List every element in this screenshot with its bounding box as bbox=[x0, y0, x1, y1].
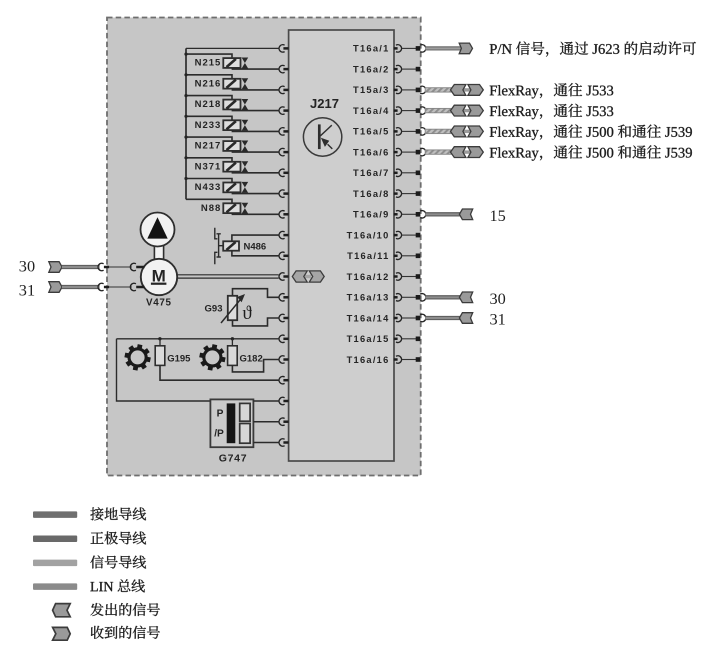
svg-text:M: M bbox=[152, 266, 166, 285]
svg-text:V475: V475 bbox=[146, 298, 172, 309]
svg-text:T15a/3: T15a/3 bbox=[353, 85, 389, 95]
svg-text:31: 31 bbox=[19, 280, 35, 299]
svg-text:N371: N371 bbox=[195, 161, 222, 172]
svg-text:T16a/6: T16a/6 bbox=[353, 147, 389, 157]
svg-text:T16a/14: T16a/14 bbox=[347, 313, 390, 323]
svg-text:ϑ: ϑ bbox=[242, 303, 252, 324]
svg-text:G195: G195 bbox=[167, 353, 191, 364]
svg-text:N215: N215 bbox=[195, 58, 222, 69]
svg-text:N216: N216 bbox=[195, 78, 222, 89]
svg-text:T16a/2: T16a/2 bbox=[353, 64, 389, 74]
svg-text:T16a/4: T16a/4 bbox=[353, 106, 389, 116]
svg-text:P: P bbox=[217, 409, 224, 420]
svg-text:N218: N218 bbox=[195, 99, 222, 110]
svg-text:N233: N233 bbox=[195, 120, 222, 131]
svg-text:G93: G93 bbox=[205, 304, 223, 315]
svg-text:N486: N486 bbox=[244, 242, 267, 253]
svg-text:31: 31 bbox=[490, 310, 506, 329]
svg-text:N88: N88 bbox=[201, 203, 221, 214]
svg-text:N433: N433 bbox=[195, 182, 222, 193]
svg-text:G182: G182 bbox=[240, 353, 263, 364]
svg-text:T16a/10: T16a/10 bbox=[347, 230, 390, 240]
svg-text:T16a/15: T16a/15 bbox=[347, 334, 390, 344]
svg-text:15: 15 bbox=[490, 206, 506, 225]
svg-text:T16a/9: T16a/9 bbox=[353, 210, 389, 220]
svg-text:N217: N217 bbox=[195, 141, 222, 152]
svg-text:T16a/8: T16a/8 bbox=[353, 189, 389, 199]
svg-text:T16a/11: T16a/11 bbox=[347, 251, 389, 261]
svg-text:T16a/5: T16a/5 bbox=[353, 127, 389, 137]
svg-text:J217: J217 bbox=[310, 96, 339, 111]
svg-text:30: 30 bbox=[19, 257, 35, 276]
svg-text:T16a/1: T16a/1 bbox=[353, 44, 389, 54]
svg-text:T16a/16: T16a/16 bbox=[347, 355, 390, 365]
svg-text:30: 30 bbox=[490, 289, 506, 308]
svg-text:T16a/12: T16a/12 bbox=[347, 272, 390, 282]
svg-text:T16a/13: T16a/13 bbox=[347, 293, 390, 303]
svg-text:G747: G747 bbox=[219, 452, 248, 464]
svg-text:T16a/7: T16a/7 bbox=[353, 168, 389, 178]
svg-text:/P: /P bbox=[214, 429, 224, 440]
